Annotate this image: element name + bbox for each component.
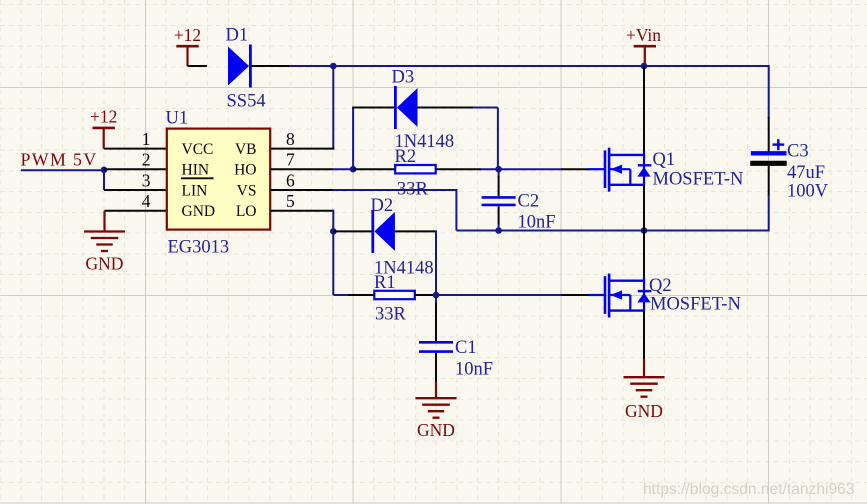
- svg-text:7: 7: [286, 150, 295, 170]
- wire pin 4 GND: [105, 210, 167, 212]
- junction switch node: [641, 227, 648, 234]
- power +12 (above pin 1): [90, 107, 117, 149]
- transistor Q1 MOSFET-N symbol: [589, 148, 652, 192]
- svg-text:+12: +12: [90, 107, 117, 127]
- capacitor C1 bottom lead: [435, 353, 437, 382]
- wire +12 to D1 anode: [188, 65, 208, 67]
- pin name HIN underline: [181, 177, 214, 179]
- wire pin 7 HO: [270, 168, 333, 170]
- power +12 (top, feeds D1): [174, 25, 201, 66]
- wire Q2 drain to switch node: [643, 231, 645, 277]
- svg-text:10nF: 10nF: [455, 359, 493, 379]
- wire LO riser corner to R1: [333, 294, 349, 296]
- ground GND (C1): [416, 382, 457, 441]
- svg-text:3: 3: [142, 170, 151, 190]
- capacitor C1 top lead: [435, 295, 437, 304]
- wire VB riser (node to pin 8): [332, 66, 334, 149]
- junction top rail / VB riser: [330, 63, 337, 70]
- wire D3 right riser: [497, 108, 499, 170]
- wire pin 6 VS: [270, 189, 333, 191]
- junction Q2 gate node / C1 top / D2 right: [433, 292, 440, 299]
- diode D3: [395, 86, 417, 129]
- svg-text:D2: D2: [371, 196, 394, 216]
- power +Vin: [626, 25, 661, 66]
- svg-text:6: 6: [286, 170, 295, 190]
- wire D1 cathode to node VB-top: [252, 65, 291, 67]
- resistor R1: [374, 291, 415, 299]
- wire D3 left riser: [352, 108, 354, 170]
- wire VS rail to switch node: [456, 230, 644, 232]
- wire LO riser down: [332, 210, 334, 295]
- wire Q2 source down: [643, 311, 645, 360]
- svg-text:U1: U1: [166, 108, 189, 128]
- wire PWM drop to LIN: [103, 170, 105, 190]
- svg-text:10nF: 10nF: [518, 212, 556, 232]
- svg-text:R1: R1: [374, 273, 396, 293]
- svg-text:GND: GND: [86, 254, 124, 274]
- wire pin 3 LIN: [104, 189, 167, 191]
- svg-text:C3: C3: [787, 142, 809, 162]
- transistor Q2 MOSFET-N symbol: [589, 274, 652, 318]
- wire right rail down to C3: [768, 65, 770, 118]
- wire PWM input: [21, 169, 104, 171]
- wire D2 right pin: [395, 230, 436, 232]
- svg-text:C2: C2: [518, 191, 540, 211]
- svg-text:D1: D1: [226, 26, 249, 46]
- wire HO line junction to R2 body: [353, 168, 395, 170]
- svg-text:LO: LO: [236, 203, 257, 220]
- svg-text:LIN: LIN: [182, 182, 208, 199]
- ground GND (Q2 source): [624, 359, 665, 421]
- svg-text:VS: VS: [237, 182, 257, 199]
- svg-text:PWM 5V: PWM 5V: [21, 149, 98, 169]
- svg-text:https://blog.csdn.net/tanzhi96: https://blog.csdn.net/tanzhi963: [643, 481, 855, 498]
- wire R1 to C1 node: [415, 294, 436, 296]
- svg-text:R2: R2: [395, 147, 417, 167]
- wire +Vin node to right rail corner: [644, 65, 769, 67]
- svg-text:+Vin: +Vin: [626, 25, 661, 45]
- wire Q1 drain to +Vin node: [643, 66, 645, 152]
- wire gate node to Q2 gate pin: [436, 294, 563, 296]
- svg-text:33R: 33R: [375, 304, 407, 324]
- wire D2 left pin: [333, 230, 373, 232]
- diode D1: [228, 45, 250, 88]
- capacitor C1: [419, 342, 453, 351]
- capacitor C3 positive plate: [751, 151, 787, 155]
- svg-text:HIN: HIN: [182, 162, 210, 179]
- wire D3 right corner: [473, 107, 498, 109]
- svg-text:MOSFET-N: MOSFET-N: [650, 295, 741, 315]
- ground GND (U1 pin 4): [84, 211, 125, 274]
- wire top rail node to +Vin node: [333, 65, 644, 67]
- junction PWM / HIN / LIN: [101, 167, 108, 174]
- svg-text:5: 5: [286, 191, 295, 211]
- capacitor C2 top lead: [498, 169, 500, 177]
- junction LO riser / D2 left leg: [330, 228, 337, 235]
- svg-text:EG3013: EG3013: [168, 238, 230, 258]
- svg-text:Q2: Q2: [649, 276, 672, 296]
- svg-text:+12: +12: [174, 25, 201, 45]
- svg-text:VCC: VCC: [182, 141, 214, 158]
- wire R2 to C2 node: [436, 168, 481, 170]
- svg-text:MOSFET-N: MOSFET-N: [653, 169, 744, 189]
- svg-text:GND: GND: [182, 203, 216, 220]
- svg-text:2: 2: [142, 150, 151, 170]
- junction HO / D3 left leg: [350, 166, 357, 173]
- diode D2: [373, 210, 395, 253]
- wire VS corner down: [455, 189, 457, 231]
- wire C3 bottom lead: [768, 166, 770, 196]
- wire D2 right riser: [435, 230, 437, 295]
- wire pin 8 VB: [270, 148, 334, 150]
- svg-text:1: 1: [142, 129, 151, 149]
- capacitor C2: [482, 197, 516, 205]
- svg-text:VB: VB: [235, 141, 257, 158]
- svg-text:SS54: SS54: [227, 92, 266, 112]
- op-amp U1 EG3013 body: [167, 129, 270, 230]
- svg-text:C1: C1: [455, 338, 477, 358]
- wire switch node to right rail: [644, 230, 769, 232]
- svg-text:47uF: 47uF: [787, 163, 825, 183]
- junction VS rail / C2 bottom: [495, 227, 502, 234]
- svg-text:100V: 100V: [787, 182, 829, 202]
- wire gate node to Q1 gate pin: [499, 168, 563, 170]
- svg-text:D3: D3: [392, 68, 415, 88]
- wire pin 5 LO: [270, 210, 333, 212]
- svg-text:4: 4: [142, 191, 151, 211]
- resistor R2: [395, 165, 436, 173]
- wire VS to corner: [332, 189, 456, 191]
- wire HO to R2: [332, 168, 353, 170]
- capacitor C2 bottom lead: [498, 206, 500, 225]
- svg-text:Q1: Q1: [653, 150, 676, 170]
- wire pin 2 HIN: [104, 168, 167, 170]
- capacitor C3 polarity plus: [773, 139, 785, 150]
- junction Q1 gate node / C2 top: [495, 166, 502, 173]
- wire D3 left pin: [352, 107, 395, 109]
- wire D3 right pin: [417, 107, 474, 109]
- svg-text:GND: GND: [417, 420, 455, 440]
- svg-text:8: 8: [286, 129, 295, 149]
- capacitor C3 negative plate: [750, 161, 787, 166]
- wire Q1 source to switch node: [643, 185, 645, 231]
- junction +Vin node: [641, 63, 648, 70]
- svg-text:HO: HO: [234, 162, 256, 179]
- wire pin 1 VCC: [104, 148, 167, 150]
- svg-text:GND: GND: [625, 401, 663, 421]
